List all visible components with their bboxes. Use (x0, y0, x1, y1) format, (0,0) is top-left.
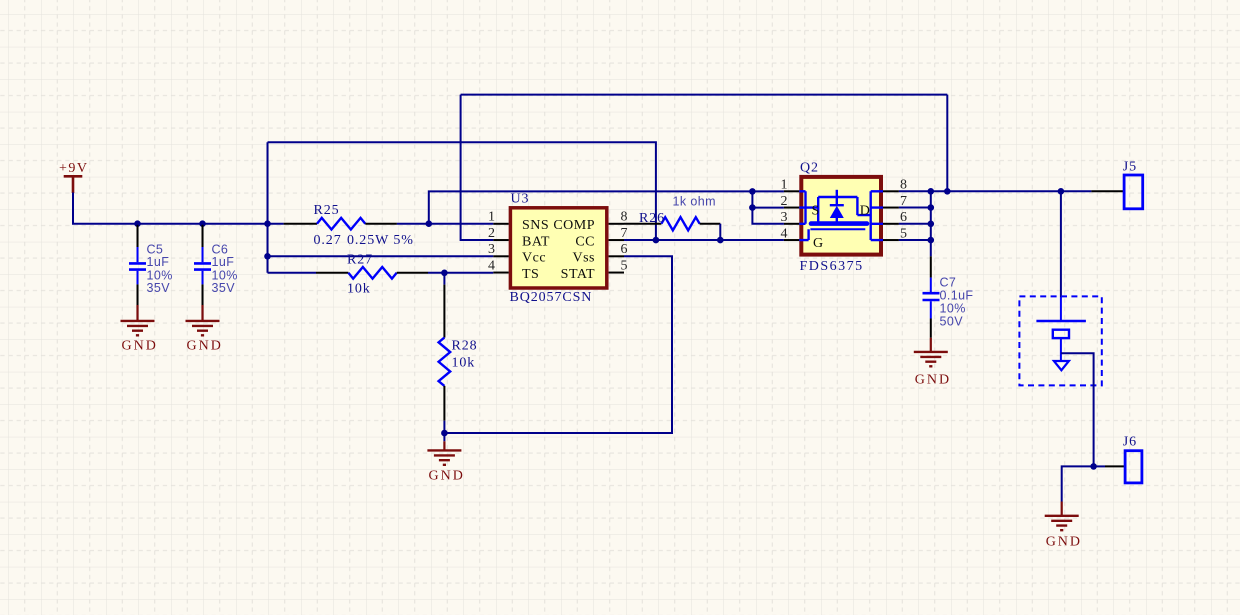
svg-text:FDS6375: FDS6375 (800, 259, 864, 274)
resistor R27 (268, 253, 429, 297)
svg-text:CC: CC (575, 234, 595, 249)
IC U3 BQ2057CSN (488, 192, 628, 305)
svg-text:5: 5 (621, 259, 628, 274)
svg-text:1: 1 (781, 178, 788, 193)
ground GND C7 (914, 338, 951, 388)
svg-text:3: 3 (781, 210, 788, 225)
svg-text:10k: 10k (347, 281, 371, 296)
svg-text:U3: U3 (511, 192, 530, 207)
svg-text:10%: 10% (212, 268, 238, 282)
node junction C5 (134, 220, 141, 227)
svg-text:STAT: STAT (561, 267, 595, 282)
svg-text:COMP: COMP (553, 218, 595, 233)
svg-text:R25: R25 (314, 203, 340, 218)
connector J5 (1091, 159, 1142, 209)
ground GND R28 (427, 433, 464, 484)
svg-text:0.25W 5%: 0.25W 5% (347, 233, 414, 248)
wire junction to GND leg (1062, 466, 1094, 501)
pin 1 (784, 190, 799, 192)
svg-text:GND: GND (122, 338, 158, 353)
wire Vcc row x=267.5 to U3 pin3 (268, 255, 494, 257)
svg-text:J5: J5 (1123, 159, 1137, 174)
wire CC row from pin7 to Q2 gate pin4 (624, 239, 784, 241)
svg-text:GND: GND (1046, 534, 1082, 549)
svg-text:J6: J6 (1123, 435, 1137, 450)
svg-text:GND: GND (429, 469, 465, 484)
resistor R28 (439, 273, 478, 421)
pin 8 COMP (609, 223, 624, 225)
wire vertical x=947.3 down to drain row (946, 95, 948, 192)
ground GND C6 (186, 305, 223, 353)
svg-text:10k: 10k (452, 356, 476, 371)
svg-text:1uF: 1uF (147, 255, 170, 269)
svg-text:0.1uF: 0.1uF (940, 288, 974, 302)
node junction R27/R28 (441, 270, 448, 277)
svg-text:8: 8 (900, 178, 907, 193)
node junction R28/GND/Vss loop (441, 430, 448, 437)
pin 6 Vss (609, 255, 624, 257)
svg-text:4: 4 (488, 259, 495, 274)
svg-text:6: 6 (621, 242, 628, 257)
pin 5 STAT (609, 272, 624, 274)
svg-text:8: 8 (621, 210, 628, 225)
wire +9V rail down and right (y=223.7) (73, 193, 284, 224)
svg-text:0.27: 0.27 (314, 233, 342, 248)
svg-text:R27: R27 (347, 253, 373, 268)
node junction battery drop (1058, 188, 1065, 195)
svg-text:SNS: SNS (522, 218, 549, 233)
pin 8 (883, 190, 899, 192)
svg-text:6: 6 (900, 210, 907, 225)
wire R26 down to CC row (719, 224, 721, 240)
svg-text:S: S (812, 203, 820, 218)
pin 5 (883, 239, 899, 241)
wire R28 bottom to GND junction (443, 421, 445, 433)
svg-text:GND: GND (187, 338, 223, 353)
svg-text:2: 2 (781, 194, 788, 209)
svg-text:7: 7 (621, 226, 628, 241)
svg-text:BQ2057CSN: BQ2057CSN (510, 290, 593, 305)
pin 4 TS (493, 272, 508, 274)
wire R25 to SNS and up-branch (397, 223, 493, 225)
node junction CC row x=655.9 (653, 237, 660, 244)
node junction top wire drop (944, 188, 951, 195)
node junction x=267.5 Vcc (264, 253, 271, 260)
capacitor C5 (129, 225, 173, 305)
battery pack (dashed box) (1019, 191, 1101, 385)
connector J6 (1094, 435, 1142, 483)
node junctions on bracket (928, 188, 935, 195)
wire Vss loop: pin6 right, down, left to R28 gnd (444, 256, 672, 433)
pin 4 (784, 239, 799, 241)
node junction R25/SNS branch (426, 220, 433, 227)
svg-text:Vcc: Vcc (522, 251, 546, 266)
svg-text:50V: 50V (940, 315, 964, 329)
wire battery minus to J6/GND (1061, 353, 1094, 466)
wire y=142.3 from x=267.5 to x=655.9 then down to CC row (268, 142, 656, 240)
svg-text:GND: GND (915, 372, 951, 387)
svg-text:1k ohm: 1k ohm (673, 195, 716, 209)
pin 2 (784, 207, 799, 209)
transistor Q2 FDS6375 (781, 160, 908, 274)
pin 2 BAT (493, 239, 508, 241)
svg-text:10%: 10% (147, 268, 173, 282)
node junction Q2 row1 x=752.4 (749, 188, 756, 195)
pin 6 (883, 223, 899, 225)
svg-text:3: 3 (488, 242, 495, 257)
ground GND C5 (121, 305, 158, 353)
pin 3 Vcc (493, 255, 508, 257)
pin 1 SNS (493, 223, 508, 225)
wire vertical x=267.5 from y=142.3 to R27 row (267, 142, 269, 272)
svg-text:G: G (813, 236, 824, 251)
svg-text:10%: 10% (940, 302, 966, 316)
svg-text:R26: R26 (639, 211, 665, 226)
node junction C6 (199, 220, 206, 227)
svg-text:1uF: 1uF (212, 255, 235, 269)
mosfet internal symbol (799, 190, 883, 240)
power +9V (59, 161, 89, 193)
svg-text:D: D (860, 203, 871, 218)
svg-text:R28: R28 (452, 338, 478, 353)
node junction Q2 row2 x=752.4 (749, 204, 756, 211)
resistor R25 (284, 203, 414, 248)
svg-text:+9V: +9V (59, 161, 89, 176)
wire branch x=428.8 up to y=191.4 then right to Q2 source rows (429, 191, 784, 223)
svg-text:35V: 35V (147, 281, 171, 295)
capacitor C6 (194, 225, 238, 305)
wire R27 to TS pin4 (428, 272, 493, 274)
svg-text:TS: TS (522, 267, 539, 282)
svg-text:Q2: Q2 (800, 160, 819, 175)
resistor R26 (624, 195, 720, 231)
wire top net BAT/drain (y=94.6) (461, 94, 948, 96)
svg-text:1: 1 (488, 210, 495, 225)
body diode (830, 206, 844, 218)
svg-text:BAT: BAT (522, 234, 550, 249)
wire rows 7,6,5 to bracket (899, 208, 931, 241)
svg-text:35V: 35V (212, 281, 236, 295)
capacitor C7 (923, 240, 974, 338)
pin 7 (883, 207, 899, 209)
wire bracket x=752.4 rows 1-3 of Q2 (752, 191, 784, 223)
pin 7 CC (609, 239, 624, 241)
node junction x=267.5 rail (264, 220, 271, 227)
node junction CC row x=720.3 (717, 237, 724, 244)
wire vertical x=460.6 down to U3 pin2 BAT (461, 95, 494, 240)
svg-text:4: 4 (781, 226, 788, 241)
svg-text:Vss: Vss (572, 251, 595, 266)
wire bracket vertical x=930.8 (930, 191, 932, 240)
ground GND J6 (1045, 502, 1082, 550)
wire drain row pins to J5 (899, 190, 1092, 192)
node junction J6 (1090, 463, 1097, 470)
svg-text:2: 2 (488, 226, 495, 241)
pin 3 (784, 223, 799, 225)
